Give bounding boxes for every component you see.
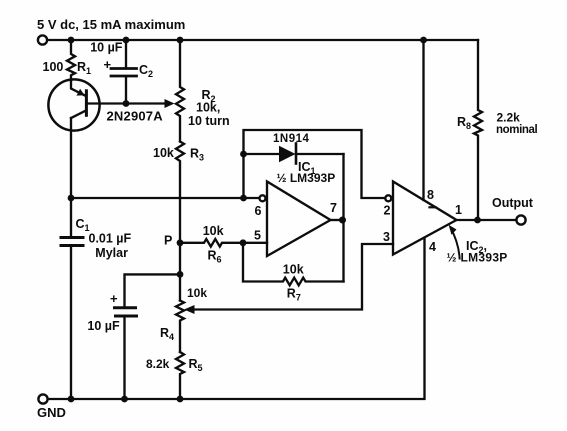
- capacitor 10uF electrolytic: [87, 274, 180, 399]
- junction pin6 wire / collector column: [68, 195, 75, 202]
- capacitor C1: [61, 217, 132, 399]
- svg-text:10k,: 10k,: [196, 101, 220, 115]
- svg-text:10 µF: 10 µF: [90, 41, 123, 55]
- svg-text:10k: 10k: [283, 263, 304, 277]
- potentiometer R2: [176, 40, 230, 142]
- resistor R6: [180, 224, 243, 265]
- svg-text:10 turn: 10 turn: [188, 114, 230, 128]
- svg-text:10k: 10k: [203, 224, 224, 238]
- svg-text:nominal: nominal: [496, 124, 537, 136]
- svg-text:5 V dc, 15 mA maximum: 5 V dc, 15 mA maximum: [37, 17, 185, 32]
- wire column C: P to R4: [179, 243, 181, 301]
- junction top rail / C2: [123, 37, 130, 44]
- wire GND rail: [48, 238, 425, 399]
- junction pin6 wire / bus D: [240, 195, 247, 202]
- pin 7 lead: [331, 219, 344, 221]
- resistor R1: [43, 40, 92, 80]
- resistor R7 feedback: [243, 243, 344, 303]
- wiper arrowhead R2: [165, 99, 175, 108]
- svg-text:2.2k: 2.2k: [497, 111, 521, 125]
- node P: [177, 239, 184, 246]
- base bar: [85, 91, 88, 116]
- resistor R8: [457, 40, 537, 220]
- potentiometer R4: [160, 286, 207, 352]
- IC2 inverting input minus mark: [430, 206, 436, 208]
- svg-text:8.2k: 8.2k: [146, 357, 170, 371]
- junction top rail / pin8 branch: [420, 37, 427, 44]
- GND terminal: [38, 394, 47, 403]
- svg-text:6: 6: [255, 204, 262, 218]
- svg-text:GND: GND: [37, 405, 66, 420]
- op-amp IC1 (1/2 LM393P): [243, 160, 344, 256]
- wire top rail: [48, 39, 479, 41]
- junction pin5 / R6 / R7: [240, 239, 247, 246]
- svg-text:5: 5: [254, 229, 261, 243]
- pin 6 bubble: [260, 195, 266, 201]
- junction top rail / R2: [177, 37, 184, 44]
- transistor Q1 2N2907A: [48, 79, 163, 130]
- wire pin8 from top rail: [422, 40, 424, 200]
- svg-text:Mylar: Mylar: [95, 246, 128, 260]
- junction bus D / diode anode: [240, 151, 247, 158]
- svg-text:2N2907A: 2N2907A: [107, 109, 164, 124]
- svg-text:4: 4: [429, 240, 436, 254]
- svg-text:½ LM393P: ½ LM393P: [447, 251, 508, 265]
- svg-text:10 µF: 10 µF: [87, 319, 120, 333]
- svg-text:10k: 10k: [153, 146, 174, 160]
- junction GND / 10uF: [121, 396, 128, 403]
- svg-text:3: 3: [383, 230, 390, 244]
- svg-text:7: 7: [330, 201, 337, 215]
- svg-text:½ LM393P: ½ LM393P: [277, 171, 336, 185]
- emitter with arrow (PNP): [71, 80, 86, 96]
- svg-text:Output: Output: [492, 196, 534, 210]
- resistor R3: [153, 142, 204, 243]
- svg-text:P: P: [164, 234, 172, 248]
- wire pin6 row (collector to IC1 pin6): [71, 197, 260, 199]
- svg-text:8: 8: [427, 188, 434, 202]
- +5V terminal: [38, 35, 47, 44]
- IC2 label with arrow: [447, 225, 508, 265]
- svg-text:10k: 10k: [187, 286, 207, 300]
- svg-text:+: +: [110, 291, 118, 306]
- wire collector column down to GND: [70, 118, 72, 236]
- wire pin3 of IC2 to R4 wiper: [194, 244, 393, 310]
- output terminal: [516, 215, 525, 224]
- bus E (output of IC1 / feedback): [342, 154, 344, 282]
- junction bus E / IC1 output: [339, 217, 346, 224]
- junction base wire / C2: [123, 100, 130, 107]
- wiper arrowhead R4: [184, 305, 195, 314]
- collector: [71, 111, 85, 118]
- op-amp IC2 (1/2 LM393P): [383, 182, 462, 255]
- wire base to R2 wiper: [88, 102, 166, 104]
- diode D1 1N914: [244, 133, 344, 164]
- wire output row: [457, 219, 516, 221]
- junction top rail / R1: [68, 37, 75, 44]
- svg-text:1: 1: [455, 203, 462, 217]
- svg-text:1N914: 1N914: [273, 133, 309, 145]
- svg-text:0.01 µF: 0.01 µF: [89, 232, 132, 246]
- capacitor C2: [90, 40, 153, 104]
- junction output / R8: [474, 217, 481, 224]
- junction GND / R5: [177, 396, 184, 403]
- svg-text:100: 100: [43, 60, 64, 74]
- junction GND / C1: [68, 396, 75, 403]
- svg-text:+: +: [104, 57, 112, 72]
- pin 5 lead: [243, 242, 267, 244]
- bus D upper (pin2 net): [244, 130, 385, 198]
- svg-text:2: 2: [384, 204, 391, 218]
- resistor R5: [146, 352, 203, 399]
- pin 2 bubble: [385, 195, 391, 201]
- junction column C / 10uF branch: [177, 271, 184, 278]
